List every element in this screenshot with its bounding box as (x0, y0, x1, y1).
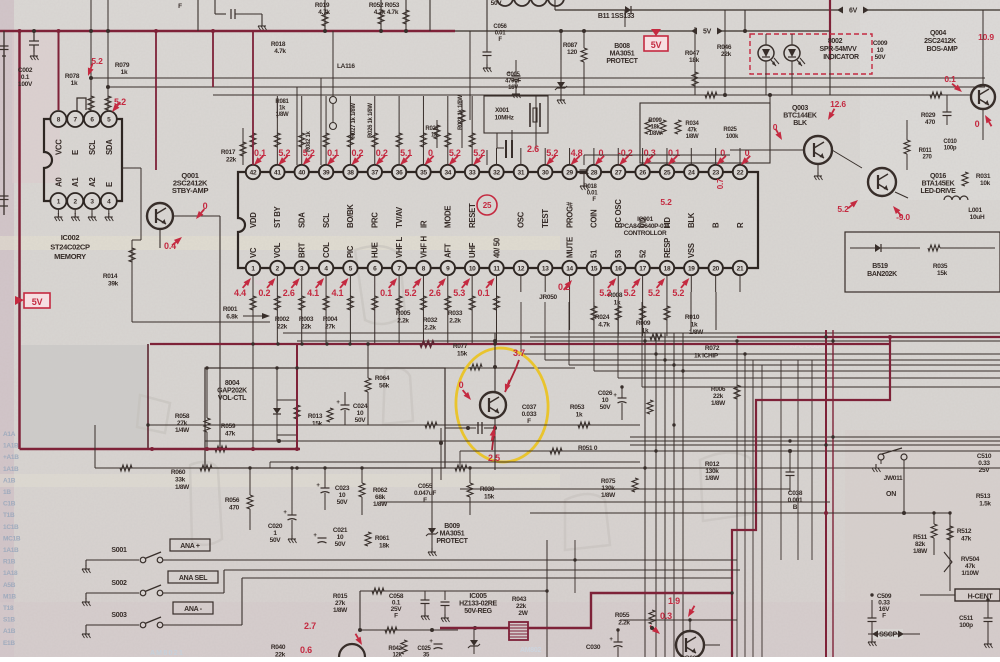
svg-text:1/8W: 1/8W (686, 134, 699, 140)
svg-text:1/8W: 1/8W (601, 492, 616, 499)
svg-text:B11 1SS133: B11 1SS133 (598, 13, 635, 20)
svg-text:2.6: 2.6 (429, 288, 441, 298)
svg-text:5.2: 5.2 (449, 148, 461, 158)
svg-text:13: 13 (542, 266, 549, 273)
svg-text:27: 27 (615, 170, 622, 177)
svg-text:37: 37 (371, 170, 378, 177)
svg-text:M1B: M1B (3, 593, 16, 600)
svg-text:R1B: R1B (3, 559, 16, 566)
svg-text:31: 31 (518, 170, 525, 177)
svg-text:B519: B519 (872, 263, 888, 270)
svg-text:COIN: COIN (590, 209, 599, 228)
svg-text:C020: C020 (268, 523, 283, 530)
svg-text:5.1: 5.1 (400, 148, 412, 158)
svg-text:VDD: VDD (249, 212, 258, 228)
svg-text:0.047uF: 0.047uF (414, 490, 436, 497)
svg-text:4.7k: 4.7k (274, 48, 286, 55)
svg-text:COL: COL (322, 242, 331, 258)
svg-text:Q004: Q004 (930, 30, 946, 37)
svg-text:R: R (736, 222, 745, 228)
svg-text:R024: R024 (595, 314, 610, 321)
svg-text:36: 36 (396, 170, 403, 177)
svg-text:F: F (882, 613, 886, 620)
svg-text:A0: A0 (54, 177, 63, 187)
svg-text:R046: R046 (717, 44, 732, 51)
svg-text:21: 21 (737, 266, 744, 273)
svg-text:BLK: BLK (793, 120, 807, 127)
svg-text:1/4W: 1/4W (175, 427, 190, 434)
svg-text:E: E (105, 182, 114, 187)
svg-text:C030: C030 (586, 644, 601, 651)
svg-text:0.2: 0.2 (376, 148, 388, 158)
svg-text:5V: 5V (32, 297, 43, 307)
svg-text:R015: R015 (333, 593, 348, 600)
svg-text:S001: S001 (111, 547, 127, 554)
svg-text:C026: C026 (598, 390, 613, 397)
svg-text:R012: R012 (705, 461, 720, 468)
svg-text:R021: R021 (425, 126, 439, 132)
svg-text:2.5: 2.5 (488, 453, 500, 463)
svg-text:56k: 56k (379, 383, 390, 390)
svg-text:19: 19 (688, 266, 695, 273)
svg-text:100p: 100p (944, 146, 957, 152)
svg-text:1/8W: 1/8W (711, 400, 726, 407)
svg-text:R004: R004 (323, 316, 338, 323)
svg-text:0.1: 0.1 (380, 288, 392, 298)
svg-text:10: 10 (337, 534, 344, 541)
svg-text:R079: R079 (115, 62, 130, 69)
svg-text:100V: 100V (18, 81, 33, 88)
svg-text:47k: 47k (965, 563, 976, 570)
svg-text:470: 470 (229, 505, 240, 512)
svg-text:50V: 50V (270, 537, 282, 544)
svg-text:41: 41 (274, 170, 281, 177)
svg-text:10: 10 (339, 492, 346, 499)
svg-text:MA3051: MA3051 (440, 530, 465, 537)
svg-text:100p: 100p (959, 622, 973, 629)
svg-text:R014: R014 (103, 273, 118, 280)
svg-text:A1A: A1A (3, 431, 16, 438)
svg-text:470: 470 (925, 119, 936, 126)
svg-text:X001: X001 (495, 107, 510, 114)
svg-text:R011: R011 (919, 148, 933, 154)
svg-text:34: 34 (444, 170, 451, 177)
svg-text:4.1: 4.1 (307, 288, 319, 298)
svg-text:2.6: 2.6 (283, 288, 295, 298)
svg-text:A M 8 0 2 1: A M 8 0 2 1 (150, 650, 183, 657)
svg-text:R060: R060 (171, 469, 186, 476)
svg-text:SDA: SDA (105, 139, 114, 155)
svg-text:22k: 22k (277, 324, 288, 331)
svg-text:R029: R029 (921, 112, 936, 119)
svg-text:130k: 130k (705, 468, 719, 475)
svg-text:1k: 1k (431, 133, 438, 139)
svg-text:SPR-54MVV: SPR-54MVV (820, 46, 858, 53)
svg-text:1.9: 1.9 (668, 596, 680, 606)
svg-text:R025: R025 (723, 127, 737, 133)
svg-text:SCL: SCL (88, 140, 97, 155)
svg-text:2W: 2W (518, 610, 528, 617)
svg-text:1/10W: 1/10W (961, 570, 979, 577)
svg-text:SSCP: SSCP (879, 632, 897, 639)
svg-text:VSS: VSS (687, 243, 696, 258)
svg-text:R075: R075 (601, 478, 616, 485)
svg-text:1/8W: 1/8W (705, 475, 720, 482)
svg-text:30: 30 (542, 170, 549, 177)
svg-text:22k: 22k (713, 393, 724, 400)
svg-text:R010: R010 (685, 314, 700, 321)
svg-text:-0.2: -0.2 (618, 148, 633, 158)
svg-text:10.9: 10.9 (978, 32, 994, 42)
svg-text:VOL: VOL (273, 242, 282, 258)
svg-text:Q016: Q016 (930, 173, 946, 180)
svg-text:2.6: 2.6 (527, 144, 539, 154)
svg-text:S003: S003 (111, 612, 127, 619)
svg-text:C1B: C1B (3, 501, 16, 508)
svg-text:R018: R018 (271, 41, 286, 48)
svg-text:6V: 6V (849, 8, 858, 15)
svg-text:C023: C023 (335, 485, 350, 492)
svg-text:15k: 15k (937, 270, 948, 277)
svg-text:4.7k: 4.7k (598, 322, 610, 329)
svg-text:ST24C02CP: ST24C02CP (50, 243, 90, 252)
svg-text:B008: B008 (614, 43, 630, 50)
svg-text:C038: C038 (788, 490, 803, 497)
svg-text:10uH: 10uH (970, 214, 985, 221)
svg-text:PCA84C640P-011: PCA84C640P-011 (620, 223, 670, 230)
svg-text:R064: R064 (375, 375, 390, 382)
svg-text:1k: 1k (71, 80, 78, 87)
svg-text:R033: R033 (448, 310, 463, 317)
svg-text:ANA +: ANA + (180, 543, 200, 550)
svg-text:R062: R062 (373, 487, 388, 494)
svg-text:39: 39 (323, 170, 330, 177)
svg-text:A5B: A5B (3, 582, 16, 589)
svg-text:5.2: 5.2 (837, 204, 849, 214)
svg-text:E: E (71, 150, 80, 155)
svg-text:2SC2412K: 2SC2412K (924, 38, 956, 45)
svg-text:BO/BK: BO/BK (346, 204, 355, 228)
svg-text:8004: 8004 (225, 380, 240, 387)
svg-text:S1B: S1B (3, 617, 15, 624)
svg-text:14: 14 (566, 266, 573, 273)
svg-text:0.1: 0.1 (668, 148, 680, 158)
svg-text:C005: C005 (506, 72, 520, 78)
svg-text:82k: 82k (915, 541, 926, 548)
svg-text:5.3: 5.3 (453, 288, 465, 298)
svg-text:LA116: LA116 (337, 63, 355, 70)
svg-text:PROTECT: PROTECT (606, 58, 638, 65)
svg-text:15: 15 (591, 266, 598, 273)
svg-text:130k: 130k (601, 485, 615, 492)
svg-text:470uF: 470uF (505, 79, 521, 85)
svg-text:0.1: 0.1 (327, 148, 339, 158)
svg-text:C010: C010 (943, 139, 957, 145)
svg-text:JR050: JR050 (539, 294, 557, 301)
svg-text:R058: R058 (175, 413, 190, 420)
svg-text:C009: C009 (873, 40, 888, 47)
svg-text:Q003: Q003 (792, 105, 808, 112)
svg-text:10: 10 (469, 266, 476, 273)
svg-text:5.2: 5.2 (660, 197, 672, 207)
svg-text:47k: 47k (687, 128, 697, 134)
svg-text:VC: VC (249, 247, 258, 258)
svg-text:R006: R006 (711, 386, 726, 393)
svg-text:C056: C056 (493, 24, 507, 30)
svg-text:VHF L: VHF L (395, 236, 404, 258)
svg-text:R055: R055 (615, 612, 630, 619)
svg-text:68k: 68k (375, 494, 386, 501)
svg-text:1A1B: 1A1B (3, 547, 19, 554)
svg-text:C002: C002 (18, 67, 33, 74)
svg-text:47k: 47k (225, 431, 236, 438)
svg-text:B009: B009 (444, 523, 460, 530)
svg-text:R018: R018 (583, 184, 597, 190)
svg-text:27k: 27k (325, 324, 336, 331)
svg-text:R059: R059 (221, 423, 236, 430)
svg-text:R078: R078 (65, 73, 80, 80)
svg-text:F: F (527, 418, 531, 425)
svg-text:R034: R034 (685, 121, 699, 127)
svg-text:22k: 22k (275, 652, 286, 658)
svg-text:0.33: 0.33 (978, 460, 990, 467)
svg-text:A1B: A1B (3, 477, 16, 484)
svg-text:C511: C511 (959, 615, 974, 622)
svg-text:BOS-AMP: BOS-AMP (927, 46, 959, 53)
svg-text:0.1: 0.1 (254, 148, 266, 158)
svg-text:CONTROLLOR: CONTROLLOR (624, 230, 667, 237)
svg-text:2.2k: 2.2k (618, 620, 630, 627)
svg-text:R051 0: R051 0 (578, 445, 598, 452)
svg-text:4.7k 4.7k: 4.7k 4.7k (374, 9, 399, 16)
svg-text:C021: C021 (333, 527, 348, 534)
svg-text:40: 40 (298, 170, 305, 177)
svg-text:1k: 1k (121, 69, 128, 76)
svg-text:2.7: 2.7 (304, 621, 316, 631)
svg-text:R005: R005 (396, 310, 411, 317)
svg-text:JW011: JW011 (884, 475, 903, 482)
svg-text:10: 10 (602, 397, 609, 404)
svg-text:16V: 16V (508, 85, 518, 91)
svg-text:5.2: 5.2 (473, 148, 485, 158)
svg-text:R087: R087 (563, 42, 578, 49)
svg-text:MA3051: MA3051 (610, 50, 635, 57)
svg-text:4.7k: 4.7k (318, 9, 330, 16)
svg-text:51: 51 (590, 249, 599, 258)
svg-text:VCC: VCC (54, 139, 63, 155)
svg-text:1/8W: 1/8W (689, 329, 704, 336)
svg-text:R081: R081 (275, 99, 289, 105)
svg-text:1/8W: 1/8W (333, 607, 348, 614)
svg-text:12: 12 (518, 266, 525, 273)
svg-text:50V: 50V (875, 54, 887, 61)
svg-text:0.1: 0.1 (21, 74, 30, 81)
svg-text:29: 29 (566, 170, 573, 177)
svg-text:R513: R513 (976, 493, 991, 500)
svg-text:R009: R009 (636, 320, 651, 327)
svg-text:TV/AV: TV/AV (395, 206, 404, 228)
svg-text:53: 53 (614, 249, 623, 258)
svg-text:BTC144EK: BTC144EK (783, 112, 817, 119)
svg-text:IR: IR (419, 220, 428, 228)
svg-text:PROTECT: PROTECT (436, 538, 468, 545)
svg-text:52: 52 (638, 249, 647, 258)
svg-text:C037: C037 (522, 404, 537, 411)
svg-text:100k: 100k (726, 134, 739, 140)
svg-text:R099: R099 (648, 118, 662, 124)
svg-text:R040: R040 (271, 644, 286, 651)
svg-text:S002: S002 (111, 580, 127, 587)
svg-text:0.1: 0.1 (944, 74, 956, 84)
svg-text:5.2: 5.2 (672, 288, 684, 298)
svg-text:0.1: 0.1 (478, 288, 490, 298)
svg-text:1/8W: 1/8W (373, 501, 388, 508)
svg-text:50V: 50V (355, 417, 367, 424)
svg-text:PROG#: PROG# (565, 201, 574, 228)
svg-text:R056: R056 (225, 497, 240, 504)
svg-text:E1B: E1B (3, 640, 15, 647)
svg-text:0.3: 0.3 (660, 611, 672, 621)
svg-text:33: 33 (469, 170, 476, 177)
svg-text:C510: C510 (977, 453, 992, 460)
svg-text:50V: 50V (335, 541, 347, 548)
svg-text:1/8W: 1/8W (913, 548, 928, 555)
svg-text:1/8W: 1/8W (649, 131, 662, 137)
svg-text:38: 38 (347, 170, 354, 177)
svg-text:40/ 50: 40/ 50 (492, 237, 501, 258)
svg-text:+A1B: +A1B (3, 454, 19, 461)
svg-text:R082 1k: R082 1k (306, 130, 312, 152)
svg-text:A1: A1 (71, 177, 80, 187)
svg-text:LED-DRIVE: LED-DRIVE (920, 188, 956, 195)
svg-text:R047: R047 (685, 50, 700, 57)
svg-text:R512: R512 (957, 528, 972, 535)
svg-text:42: 42 (250, 170, 257, 177)
svg-text:1A1B: 1A1B (3, 466, 19, 473)
svg-text:0.6: 0.6 (300, 645, 312, 655)
svg-text:R019: R019 (315, 2, 330, 9)
svg-text:6.8k: 6.8k (226, 314, 238, 321)
svg-text:C025: C025 (417, 646, 431, 652)
svg-text:50V-REG: 50V-REG (464, 608, 492, 615)
svg-text:0.3: 0.3 (644, 148, 656, 158)
svg-text:VHF H: VHF H (419, 235, 428, 258)
svg-text:270: 270 (922, 155, 932, 161)
svg-text:4.4: 4.4 (234, 288, 246, 298)
svg-text:20: 20 (712, 266, 719, 273)
svg-text:22k: 22k (721, 51, 732, 58)
svg-text:18k: 18k (650, 125, 660, 131)
svg-text:BLK: BLK (687, 212, 696, 228)
svg-text:1C1B: 1C1B (3, 524, 19, 531)
svg-text:BAN202K: BAN202K (867, 271, 897, 278)
svg-text:5.2: 5.2 (599, 288, 611, 298)
svg-text:4.8: 4.8 (571, 148, 583, 158)
svg-text:35: 35 (423, 653, 430, 658)
svg-text:B: B (793, 504, 798, 511)
svg-text:R031: R031 (976, 173, 991, 180)
svg-text:1/8W: 1/8W (276, 112, 289, 118)
svg-text:0.7: 0.7 (716, 178, 725, 189)
svg-text:25V: 25V (979, 467, 991, 474)
svg-text:10: 10 (357, 410, 364, 417)
svg-text:0.01: 0.01 (495, 31, 506, 37)
svg-text:0.01: 0.01 (587, 191, 598, 197)
svg-text:R030: R030 (480, 486, 495, 493)
svg-text:IC002: IC002 (61, 233, 80, 242)
svg-text:24: 24 (688, 170, 695, 177)
svg-text:SCL: SCL (322, 213, 331, 228)
svg-text:5.2: 5.2 (624, 288, 636, 298)
svg-text:IC001: IC001 (637, 216, 654, 223)
svg-text:SDA: SDA (298, 212, 307, 228)
svg-text:R001: R001 (223, 306, 238, 313)
svg-text:22k: 22k (516, 603, 527, 610)
svg-text:T1B: T1B (3, 512, 15, 519)
svg-text:A2: A2 (88, 177, 97, 187)
svg-text:10k: 10k (980, 180, 991, 187)
svg-text:R035: R035 (933, 263, 948, 270)
svg-text:F: F (394, 613, 398, 620)
svg-text:5.2: 5.2 (278, 148, 290, 158)
svg-text:INDICATOR: INDICATOR (823, 54, 859, 61)
svg-text:R017: R017 (221, 149, 236, 156)
svg-text:RESET: RESET (468, 203, 477, 228)
svg-text:AFT: AFT (444, 243, 453, 258)
svg-text:22k: 22k (226, 157, 237, 164)
svg-text:PRC: PRC (371, 212, 380, 228)
svg-text:IC005: IC005 (469, 593, 487, 600)
svg-text:50V: 50V (337, 499, 349, 506)
svg-text:AM802: AM802 (520, 647, 541, 654)
svg-text:R022 1k 1/8W: R022 1k 1/8W (458, 95, 464, 130)
svg-text:17: 17 (639, 266, 646, 273)
svg-text:1B: 1B (3, 489, 11, 496)
svg-text:4.1: 4.1 (331, 288, 343, 298)
svg-text:MEMORY: MEMORY (54, 252, 86, 261)
svg-text:ST BY: ST BY (273, 205, 282, 228)
svg-text:25: 25 (664, 170, 671, 177)
svg-text:1k: 1k (279, 106, 286, 112)
svg-text:5.2: 5.2 (546, 148, 558, 158)
svg-text:UHF: UHF (468, 242, 477, 258)
svg-text:5V: 5V (651, 40, 662, 50)
svg-text:3.7: 3.7 (513, 348, 525, 358)
svg-text:26: 26 (639, 170, 646, 177)
svg-text:22: 22 (737, 170, 744, 177)
svg-text:1.5k: 1.5k (979, 501, 991, 508)
svg-text:0: 0 (459, 380, 464, 390)
svg-text:5.2: 5.2 (404, 288, 416, 298)
svg-text:STBY-AMP: STBY-AMP (172, 186, 209, 195)
svg-text:0.001: 0.001 (788, 497, 803, 504)
svg-text:C055: C055 (418, 483, 433, 490)
svg-text:RV504: RV504 (961, 556, 980, 563)
svg-text:0.033: 0.033 (522, 411, 537, 418)
svg-text:R013: R013 (308, 413, 323, 420)
svg-text:R043: R043 (512, 596, 527, 603)
svg-text:R032: R032 (423, 317, 438, 324)
svg-text:HUE: HUE (371, 242, 380, 258)
svg-text:18k: 18k (379, 543, 390, 550)
svg-text:5V: 5V (703, 29, 712, 36)
svg-text:18k: 18k (689, 57, 700, 64)
svg-text:1k: 1k (691, 322, 698, 329)
svg-text:ANA SEL: ANA SEL (179, 575, 208, 582)
svg-text:R003: R003 (299, 316, 314, 323)
svg-text:1k iCHIP: 1k iCHIP (694, 353, 719, 360)
svg-text:VOL-CTL: VOL-CTL (218, 395, 247, 402)
